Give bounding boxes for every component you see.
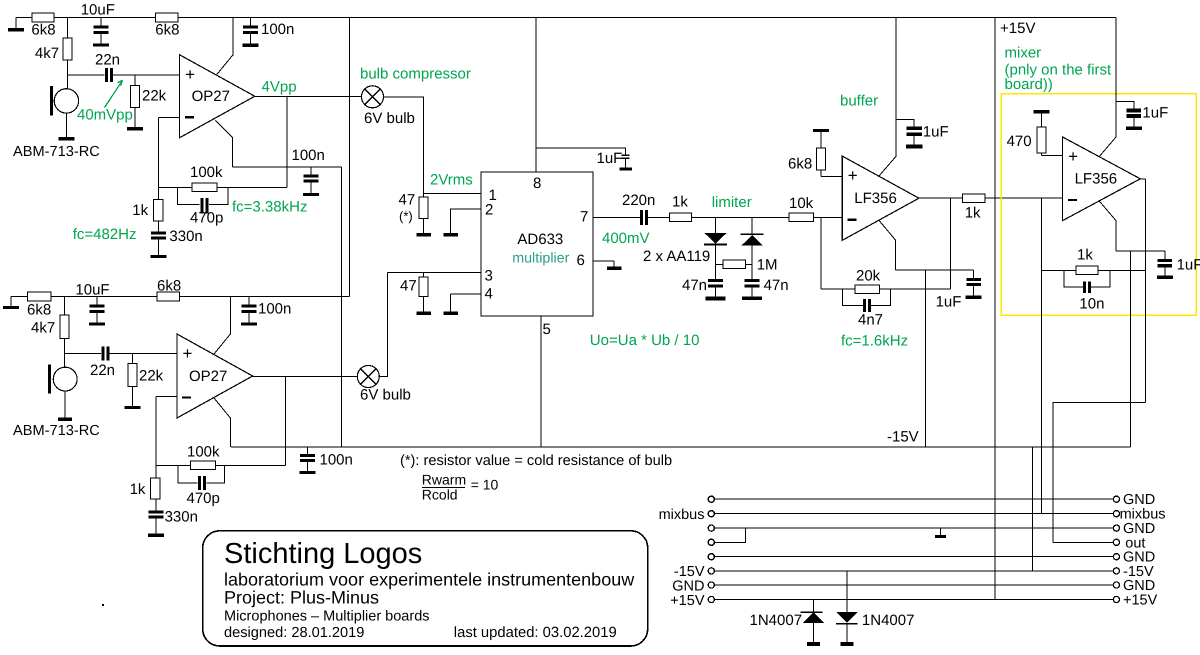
svg-text:1uF: 1uF (923, 124, 949, 141)
svg-text:47n: 47n (682, 277, 707, 294)
svg-text:6k8: 6k8 (27, 302, 51, 319)
svg-text:1k: 1k (672, 194, 688, 211)
svg-text:fc=482Hz: fc=482Hz (73, 226, 137, 243)
svg-text:2: 2 (485, 202, 493, 219)
svg-text:1k: 1k (130, 481, 146, 498)
svg-text:4k7: 4k7 (35, 45, 59, 62)
svg-text:8: 8 (533, 175, 541, 192)
svg-text:10uF: 10uF (81, 2, 115, 19)
svg-text:10k: 10k (789, 195, 814, 212)
svg-text:6: 6 (577, 252, 585, 269)
svg-text:4k7: 4k7 (31, 320, 55, 337)
svg-text:1k: 1k (132, 202, 148, 219)
svg-text:+15V: +15V (1000, 20, 1035, 37)
svg-text:6V bulb: 6V bulb (360, 387, 411, 404)
svg-text:470p: 470p (187, 490, 220, 507)
svg-text:buffer: buffer (840, 93, 878, 110)
svg-text:limiter: limiter (712, 194, 752, 211)
svg-text:47: 47 (399, 192, 416, 209)
svg-text:ABM-713-RC: ABM-713-RC (13, 423, 100, 439)
svg-text:designed: 28.01.2019: designed: 28.01.2019 (224, 625, 364, 641)
svg-text:100n: 100n (261, 21, 294, 38)
svg-text:1M: 1M (757, 256, 778, 273)
svg-text:Project: Plus-Minus: Project: Plus-Minus (224, 588, 379, 608)
svg-text:Uo=Ua * Ub / 10: Uo=Ua * Ub / 10 (590, 332, 700, 349)
svg-text:22n: 22n (95, 52, 120, 69)
svg-text:40mVpp: 40mVpp (77, 107, 133, 124)
svg-text:6k8: 6k8 (155, 22, 179, 39)
svg-text:1uF: 1uF (1142, 105, 1168, 122)
svg-text:fc=1.6kHz: fc=1.6kHz (841, 332, 908, 349)
svg-text:1N4007: 1N4007 (750, 612, 803, 629)
svg-text:+15V: +15V (670, 593, 705, 609)
svg-text:10uF: 10uF (75, 282, 109, 299)
svg-text:LF356: LF356 (1075, 171, 1118, 188)
svg-text:LF356: LF356 (854, 190, 897, 207)
svg-text:22k: 22k (139, 368, 164, 385)
svg-text:fc=3.38kHz: fc=3.38kHz (232, 199, 307, 216)
svg-text:7: 7 (580, 208, 588, 225)
svg-text:100n: 100n (258, 301, 291, 318)
svg-text:1k: 1k (1077, 247, 1093, 264)
svg-text:10n: 10n (1079, 296, 1104, 313)
svg-text:6k8: 6k8 (31, 22, 55, 39)
svg-text:= 10: = 10 (471, 477, 499, 493)
svg-text:mixer: mixer (1005, 45, 1042, 62)
svg-text:(*): resistor value = cold res: (*): resistor value = cold resistance of… (400, 453, 672, 469)
svg-text:1k: 1k (965, 205, 981, 222)
svg-text:+15V: +15V (1123, 593, 1158, 609)
svg-text:470p: 470p (190, 210, 223, 227)
svg-text:+: + (183, 344, 193, 363)
svg-text:4: 4 (485, 286, 493, 303)
svg-text:4Vpp: 4Vpp (262, 79, 297, 96)
svg-text:22n: 22n (90, 362, 115, 379)
svg-text:multiplier: multiplier (512, 251, 569, 267)
svg-text:5: 5 (543, 321, 551, 338)
svg-text:OP27: OP27 (192, 88, 230, 105)
svg-text:Microphones – Multiplier board: Microphones – Multiplier boards (224, 609, 430, 625)
svg-text:last updated: 03.02.2019: last updated: 03.02.2019 (454, 625, 617, 641)
svg-text:22k: 22k (142, 88, 167, 105)
svg-text:330n: 330n (165, 509, 198, 526)
svg-text:330n: 330n (169, 228, 202, 245)
svg-text:6k8: 6k8 (157, 278, 181, 295)
svg-text:220n: 220n (622, 192, 655, 209)
svg-text:4n7: 4n7 (858, 312, 883, 329)
svg-text:2Vrms: 2Vrms (430, 172, 473, 189)
svg-text:+: + (1068, 147, 1078, 166)
svg-text:+: + (848, 166, 858, 185)
svg-text:20k: 20k (856, 267, 881, 284)
svg-text:1N4007: 1N4007 (862, 612, 915, 629)
svg-text:470: 470 (1007, 133, 1032, 150)
svg-text:laboratorium voor experimentel: laboratorium voor experimentele instrume… (224, 570, 635, 590)
svg-text:400mV: 400mV (602, 230, 650, 247)
svg-text:Stichting Logos: Stichting Logos (224, 538, 422, 570)
svg-text:ABM-713-RC: ABM-713-RC (13, 144, 100, 160)
svg-text:1uF: 1uF (597, 150, 623, 167)
svg-text:AD633: AD633 (517, 231, 563, 248)
svg-text:+: + (185, 65, 195, 84)
svg-text:1uF: 1uF (936, 294, 962, 311)
svg-text:2 x AA119: 2 x AA119 (643, 248, 710, 265)
svg-text:6V bulb: 6V bulb (364, 110, 415, 127)
svg-text:board)): board)) (1005, 76, 1053, 93)
svg-text:100k: 100k (190, 164, 223, 181)
svg-text:3: 3 (485, 268, 493, 285)
svg-text:47n: 47n (764, 277, 789, 294)
svg-text:Rcold: Rcold (422, 486, 458, 502)
svg-text:100k: 100k (187, 444, 220, 461)
svg-text:6k8: 6k8 (788, 155, 812, 172)
svg-text:Rwarm: Rwarm (422, 472, 466, 488)
svg-text:-15V: -15V (887, 429, 919, 446)
svg-text:100n: 100n (320, 452, 353, 469)
svg-text:1uF: 1uF (1177, 257, 1200, 274)
svg-text:47: 47 (400, 278, 417, 295)
svg-text:(*): (*) (399, 209, 413, 224)
svg-text:100n: 100n (292, 147, 325, 164)
svg-text:OP27: OP27 (189, 368, 227, 385)
svg-text:bulb compressor: bulb compressor (360, 66, 471, 83)
svg-text:mixbus: mixbus (659, 507, 705, 523)
